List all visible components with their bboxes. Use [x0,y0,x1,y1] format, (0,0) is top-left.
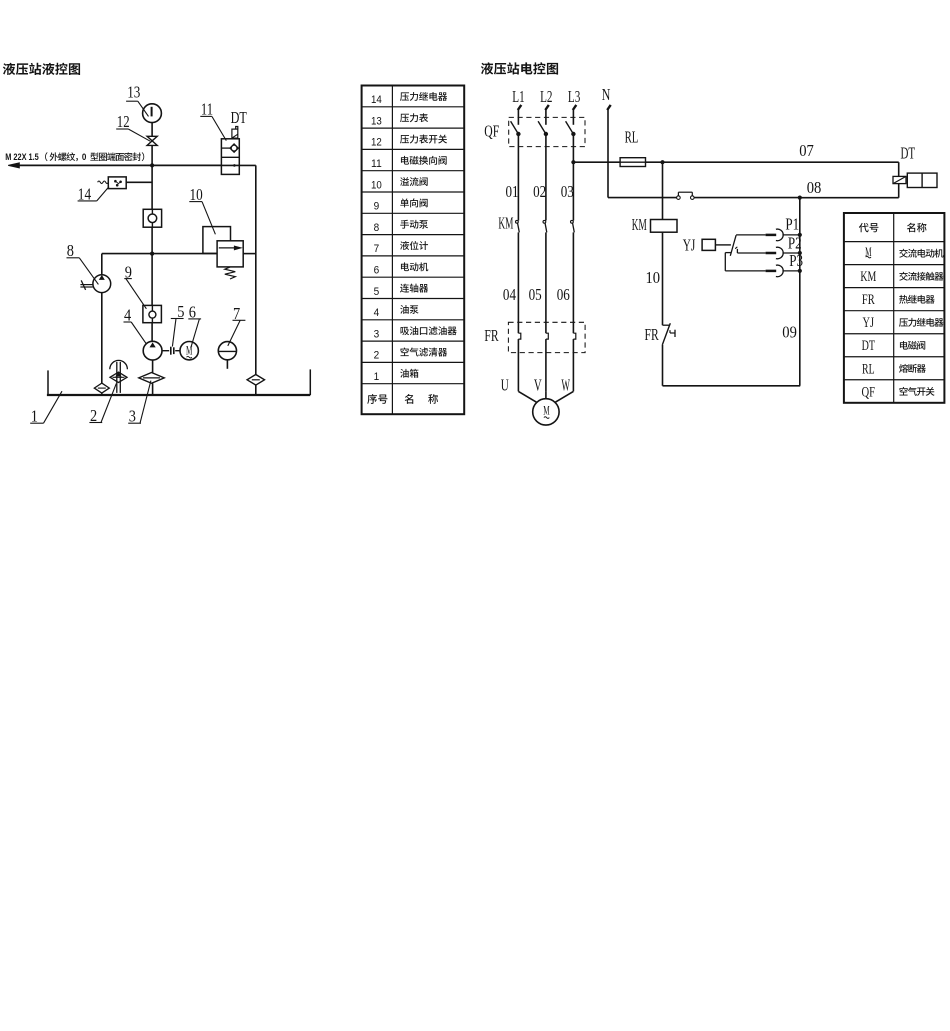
svg-text:03: 03 [561,182,574,201]
svg-text:07: 07 [799,141,814,160]
label 12 [116,112,150,141]
svg-text:13: 13 [127,83,140,102]
svg-text:FR: FR [862,292,875,308]
svg-text:P2: P2 [788,233,802,252]
breaker QF pole 2 [538,121,548,220]
svg-text:M: M [543,403,550,418]
svg-text:V: V [534,376,542,395]
svg-text:DT: DT [901,143,916,162]
label 06 [557,285,570,304]
svg-text:6: 6 [374,264,380,276]
svg-text:L3: L3 [568,87,580,106]
phase L3 upper wire [572,110,574,125]
label W [561,376,570,395]
node L3 tap [571,160,575,164]
solenoid DT [800,162,937,198]
svg-text:06: 06 [557,285,570,304]
label P1 [785,215,799,234]
label 5 [171,302,185,347]
svg-text:DT: DT [862,338,875,354]
label 05 [529,285,542,304]
label 08 [807,178,822,197]
svg-text:12: 12 [371,137,382,149]
label L1 [512,87,524,106]
svg-text:L1: L1 [512,87,524,106]
suction filter 3 [139,373,164,395]
relief valve 10 [203,227,256,279]
svg-text:10: 10 [646,268,661,287]
label 6 [188,302,201,348]
svg-text:YJ: YJ [683,235,696,254]
fuse RL [620,158,662,167]
label 10 [646,268,661,287]
label 13 [126,83,148,117]
svg-text:9: 9 [374,201,380,213]
svg-text:14: 14 [371,94,382,106]
contactor KM pole 1 [516,220,520,333]
label 02 [533,182,546,201]
svg-text:FR: FR [645,325,659,344]
label FR (heaters) [484,326,498,345]
thermal element FR pole 1 [518,333,520,391]
svg-text:KM: KM [498,213,513,232]
svg-text:02: 02 [533,182,546,201]
check valve 9 [143,254,162,342]
motor 6 [180,342,198,360]
hand pump return filter diamond [94,383,109,395]
pressure switch YJ [702,235,736,256]
label 1 [30,391,62,425]
neutral N wire [607,105,676,198]
label 01 [506,182,519,201]
node control junction [660,160,664,164]
svg-text:KM: KM [860,269,876,285]
solenoid valve 11 [221,127,239,175]
terminal L3 tick [573,105,577,110]
svg-text:8: 8 [374,222,380,234]
label P3 [789,251,803,270]
label QF [484,122,499,141]
svg-text:05: 05 [529,285,542,304]
label L2 [540,87,552,106]
thermal relay FR dashed enclosure [508,322,585,352]
contact P1 [736,229,802,241]
svg-text:09: 09 [782,323,797,342]
svg-text:QF: QF [484,122,499,141]
svg-text:1: 1 [374,371,380,383]
svg-text:QF: QF [862,384,876,400]
breaker QF pole 3 [566,121,576,220]
svg-text:11: 11 [201,100,213,119]
label DT (solenoid) [901,143,916,162]
label 14 [78,184,109,203]
svg-text:2: 2 [374,350,380,362]
label 11 [200,100,226,141]
svg-text:P3: P3 [789,251,803,270]
label YJ [683,235,696,254]
contactor KM pole 3 [571,220,575,333]
svg-text:7: 7 [374,243,380,255]
legend table (代号/名称) [844,213,945,403]
breaker QF dashed enclosure [509,117,585,146]
label N [602,85,611,104]
wire 07 [663,161,899,163]
main outlet line with arrowhead [8,163,221,168]
level gauge 7 [218,342,236,369]
phase L1 upper wire [517,110,519,125]
svg-text:M 22X 1.5: M 22X 1.5 [5,152,39,162]
stop pushbutton [677,192,800,199]
terminal L1 tick [518,105,522,110]
label 4 [124,305,147,343]
svg-text:FR: FR [484,326,498,345]
svg-text:04: 04 [503,285,516,304]
svg-text:01: 01 [506,182,519,201]
contact P2 [736,247,802,259]
node main junction [150,163,154,167]
oil pump 4 [143,341,162,372]
label DT [231,108,248,127]
label L3 [568,87,580,106]
contactor coil KM [651,162,678,325]
wire pump header [102,253,217,255]
label 2 [89,384,116,425]
breaker QF pole 1 [511,121,521,220]
svg-text:11: 11 [371,158,382,170]
title: 液压站电控图 (electric control diagram) [481,62,558,74]
label 8 [67,241,99,284]
svg-text:4: 4 [374,307,380,319]
svg-text:YJ: YJ [863,315,875,331]
label 03 [561,182,574,201]
contact P3 [725,253,802,277]
label KM (coil) [632,215,647,234]
wire 09 loop [663,198,801,386]
label RL [625,127,639,146]
thermal contact FR [662,323,675,386]
wire L3 to fuse [573,161,620,163]
label 04 [503,285,516,304]
svg-text:13: 13 [371,115,382,127]
wire main vertical upper [151,165,153,209]
svg-text:3: 3 [374,328,380,340]
svg-text:L2: L2 [540,87,552,106]
svg-text:N: N [602,85,611,104]
label P2 [788,233,802,252]
terminal L2 tick [545,105,549,110]
svg-text:10: 10 [190,185,203,204]
thermal element FR pole 3 [573,333,575,391]
label 9 [124,262,146,309]
return filter diamond [247,375,264,395]
svg-text:P1: P1 [785,215,799,234]
label FR (contact) [645,325,659,344]
label 10 [189,185,215,234]
gauge switch valve 12 [147,136,157,165]
hand pump 8 [80,254,110,384]
oil tank 1 [47,369,310,395]
label 09 [782,323,797,342]
svg-text:KM: KM [632,215,647,234]
label KM (poles) [498,213,513,232]
svg-text:08: 08 [807,178,822,197]
note text M22X1.5 [5,152,144,162]
svg-text:RL: RL [625,127,639,146]
svg-text:5: 5 [374,286,380,298]
label 3 [128,381,151,426]
svg-text:RL: RL [862,361,875,377]
pressure gauge 13 [143,104,162,137]
node 08 junction [798,196,802,200]
title: 液压站液控图 (hydraulic control diagram) [3,63,80,75]
check valve upper [143,209,161,253]
coupling 5 [162,347,180,355]
svg-text:12: 12 [117,112,130,131]
air filter 2 [110,360,128,392]
label 07 [799,141,814,160]
phase L2 upper wire [545,110,547,125]
svg-text:W: W [561,376,570,395]
pressure relay 14 [98,177,153,189]
wire right return [239,165,256,374]
svg-text:10: 10 [371,179,382,191]
label V [534,376,542,395]
svg-text:DT: DT [231,108,248,127]
label 7 [228,304,246,346]
svg-text:U: U [501,376,509,395]
node pump junction [150,252,154,256]
motor M 3~ [518,391,573,425]
svg-text:0: 0 [82,152,87,162]
contactor KM pole 2 [543,220,547,333]
parts list table (items 1-14) [362,86,465,415]
thermal element FR pole 2 [546,333,548,391]
label U [501,376,509,395]
